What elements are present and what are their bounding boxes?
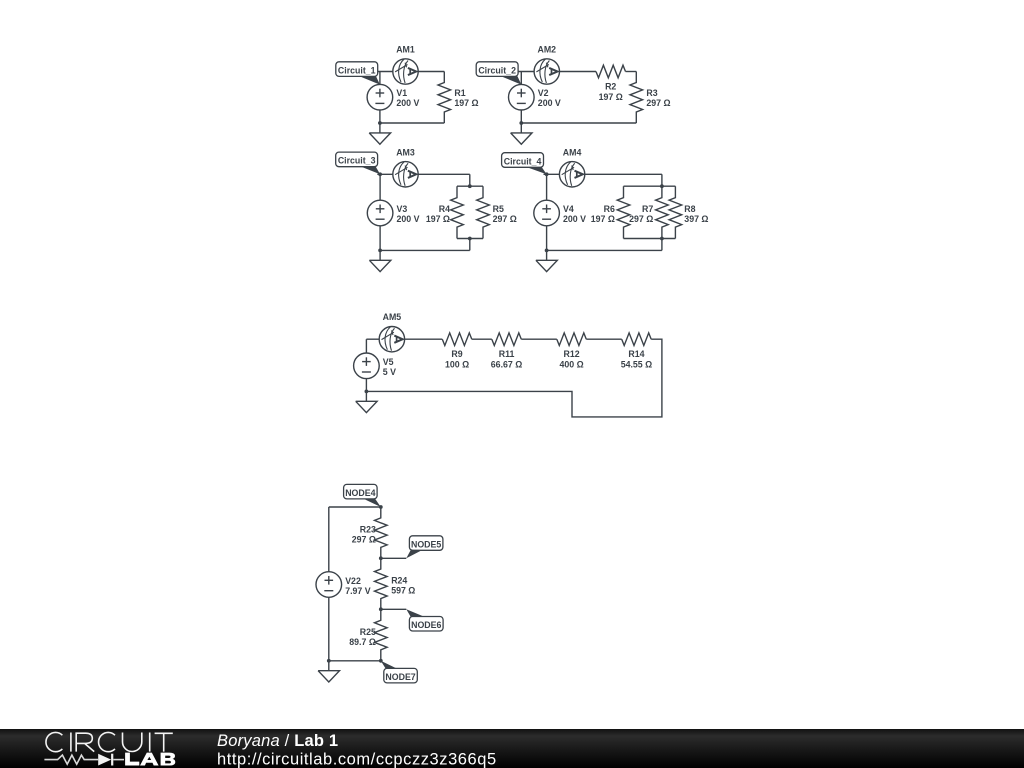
svg-text:200 V: 200 V [538, 98, 561, 108]
svg-text:Boryana / Lab 1: Boryana / Lab 1 [217, 732, 338, 750]
svg-text:197 Ω: 197 Ω [454, 98, 478, 108]
svg-text:V3: V3 [397, 204, 408, 214]
svg-text:NODE7: NODE7 [385, 672, 415, 682]
svg-text:R25: R25 [360, 627, 376, 637]
svg-text:100 Ω: 100 Ω [445, 359, 469, 369]
svg-text:200 V: 200 V [397, 214, 420, 224]
svg-text:V22: V22 [345, 576, 361, 586]
svg-text:R11: R11 [499, 349, 515, 359]
svg-text:V4: V4 [563, 204, 574, 214]
svg-text:NODE6: NODE6 [411, 620, 441, 630]
svg-text:89.7 Ω: 89.7 Ω [349, 637, 376, 647]
svg-text:V1: V1 [396, 88, 407, 98]
svg-text:R6: R6 [604, 204, 615, 214]
svg-text:R8: R8 [684, 204, 695, 214]
svg-text:297 Ω: 297 Ω [629, 214, 653, 224]
svg-text:7.97 V: 7.97 V [345, 586, 371, 596]
svg-text:Circuit_3: Circuit_3 [338, 156, 376, 166]
svg-text:NODE4: NODE4 [345, 488, 375, 498]
svg-text:R3: R3 [646, 88, 657, 98]
svg-text:http://circuitlab.com/ccpczz3z: http://circuitlab.com/ccpczz3z366q5 [217, 750, 497, 768]
svg-text:Circuit_2: Circuit_2 [478, 65, 516, 75]
svg-text:AM1: AM1 [396, 45, 415, 55]
svg-text:R9: R9 [451, 349, 462, 359]
svg-text:R24: R24 [391, 576, 407, 586]
svg-text:Circuit_1: Circuit_1 [338, 65, 376, 75]
svg-text:R4: R4 [439, 204, 450, 214]
svg-text:AM3: AM3 [396, 147, 415, 157]
svg-text:597 Ω: 597 Ω [391, 586, 415, 596]
svg-text:54.55 Ω: 54.55 Ω [621, 359, 653, 369]
svg-text:297 Ω: 297 Ω [352, 534, 376, 544]
svg-text:R7: R7 [642, 204, 653, 214]
svg-text:197 Ω: 197 Ω [599, 92, 623, 102]
svg-text:200 V: 200 V [563, 214, 586, 224]
svg-text:Circuit_4: Circuit_4 [504, 156, 542, 166]
svg-text:V5: V5 [383, 357, 394, 367]
svg-text:R12: R12 [563, 349, 579, 359]
svg-text:R5: R5 [493, 204, 504, 214]
svg-text:66.67 Ω: 66.67 Ω [491, 359, 523, 369]
svg-text:V2: V2 [538, 88, 549, 98]
svg-text:AM5: AM5 [383, 312, 402, 322]
svg-text:R1: R1 [454, 88, 465, 98]
svg-text:400 Ω: 400 Ω [559, 359, 583, 369]
svg-text:R14: R14 [628, 349, 644, 359]
svg-text:197 Ω: 197 Ω [426, 214, 450, 224]
svg-text:AM4: AM4 [563, 147, 582, 157]
svg-text:AM2: AM2 [538, 45, 557, 55]
svg-text:397 Ω: 397 Ω [684, 214, 708, 224]
svg-text:R2: R2 [605, 82, 616, 92]
svg-text:197 Ω: 197 Ω [591, 214, 615, 224]
svg-text:R23: R23 [360, 524, 376, 534]
svg-text:297 Ω: 297 Ω [646, 98, 670, 108]
svg-text:297 Ω: 297 Ω [493, 214, 517, 224]
svg-text:5 V: 5 V [383, 367, 396, 377]
svg-text:200 V: 200 V [396, 98, 419, 108]
svg-text:NODE5: NODE5 [411, 539, 441, 549]
